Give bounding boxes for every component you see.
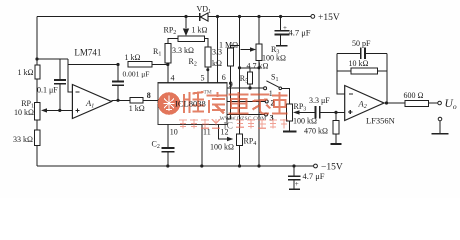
ground (top 4.7uF) xyxy=(276,45,288,47)
node -15V terminal xyxy=(314,163,343,173)
ground (bottom 4.7uF) xyxy=(289,188,300,190)
wire top bus xyxy=(37,16,311,18)
capacitor 0.001uF xyxy=(112,65,150,101)
resistor 33k xyxy=(13,130,40,146)
wire pin 6 riser xyxy=(216,15,226,83)
svg-text:100 kΩ: 100 kΩ xyxy=(293,117,317,126)
resistor R3 100k xyxy=(256,15,286,168)
capacitor 50pF feedback xyxy=(337,39,387,59)
resistor 1M xyxy=(219,41,240,120)
svg-text:3.3 μF: 3.3 μF xyxy=(309,96,330,105)
diode VD1 xyxy=(197,5,212,22)
watermark logo circle xyxy=(158,92,181,115)
ground output terminal xyxy=(432,117,449,134)
svg-text:8: 8 xyxy=(147,91,151,100)
wire 67.8 run (R3/R5 node) xyxy=(240,66,261,69)
svg-text:1 kΩ: 1 kΩ xyxy=(192,26,208,35)
resistor 10k feedback xyxy=(337,59,387,74)
resistor R1 3.3k xyxy=(153,43,194,63)
wire arrow to R3 xyxy=(241,47,257,51)
wire pin 4 riser xyxy=(166,63,174,83)
svg-text:4.7 μF: 4.7 μF xyxy=(303,171,325,181)
svg-text:1 kΩ: 1 kΩ xyxy=(125,53,141,62)
resistor 600 ohm xyxy=(404,91,438,107)
wire pin 11 to bus xyxy=(200,124,211,167)
node dot output/cap xyxy=(116,99,119,102)
node +15V terminal xyxy=(311,13,340,23)
op-amp A1 LM741 xyxy=(72,48,111,119)
svg-text:ICL8038: ICL8038 xyxy=(175,98,206,108)
capacitor 0.1uF xyxy=(37,59,66,110)
wire pin 5 riser xyxy=(201,67,210,83)
svg-text:470 kΩ: 470 kΩ xyxy=(304,127,328,136)
op-amp A2 LF356N xyxy=(345,86,395,126)
svg-text:10 kΩ: 10 kΩ xyxy=(349,59,369,68)
wire pin 3 run to terminal 3 xyxy=(227,113,274,123)
svg-text:4: 4 xyxy=(171,74,175,83)
svg-text:LF356N: LF356N xyxy=(366,116,395,126)
resistor 1k (output to pin 8) xyxy=(129,98,145,113)
wire A1 output xyxy=(112,99,158,101)
svg-text:4.7 kΩ: 4.7 kΩ xyxy=(247,61,269,70)
wire bottom bus xyxy=(37,165,314,167)
node dot A2 output xyxy=(384,101,405,104)
resistor 1k (left column) xyxy=(18,65,41,79)
svg-text:IC: IC xyxy=(224,121,234,131)
resistor 1k (feedback to pin4 node) xyxy=(125,53,168,67)
svg-text:600 Ω: 600 Ω xyxy=(404,91,424,100)
node Uo output terminal xyxy=(438,98,457,111)
wire from node y59 to inverting riser xyxy=(37,58,68,60)
op-amp U1 ICL8038 body xyxy=(158,83,227,125)
wire feedback right riser xyxy=(386,53,388,103)
svg-text:10 kΩ: 10 kΩ xyxy=(14,108,34,117)
svg-text:5: 5 xyxy=(201,74,205,83)
svg-text:kΩ: kΩ xyxy=(212,59,222,68)
svg-text:+: + xyxy=(295,180,299,188)
potentiometer RP3 100k xyxy=(287,102,317,126)
svg-text:TM: TM xyxy=(204,90,212,96)
svg-text:+15V: +15V xyxy=(318,13,340,23)
node junction at left rail y59 xyxy=(35,57,38,60)
capacitor 3.3uF xyxy=(308,96,336,119)
svg-text:+: + xyxy=(283,24,287,32)
svg-text:6: 6 xyxy=(222,73,226,82)
ground (RP3) xyxy=(283,121,297,132)
wire A1 feedback top run xyxy=(68,64,118,66)
svg-text:3.3 kΩ: 3.3 kΩ xyxy=(172,46,194,55)
capacitor 4.7uF (top) xyxy=(275,15,311,46)
capacitor C2 xyxy=(152,140,175,168)
svg-text:1 kΩ: 1 kΩ xyxy=(18,68,34,77)
svg-text:9: 9 xyxy=(229,80,233,89)
node dot at A2 +input xyxy=(334,111,344,114)
wire column A (+15 to -15 through RP4) xyxy=(238,15,241,168)
wire switch pole to RP3 xyxy=(282,88,290,104)
svg-text:1 kΩ: 1 kΩ xyxy=(129,104,145,113)
switch S1 xyxy=(266,73,281,90)
node dot at RP1 wiper / +input xyxy=(58,109,72,112)
resistor R2 3.3k xyxy=(189,47,223,68)
wire pin 10 to C2 xyxy=(168,124,178,147)
potentiometer RP2 1k xyxy=(164,15,208,47)
svg-text:50 pF: 50 pF xyxy=(352,39,371,48)
pin 12 label xyxy=(221,128,229,137)
potentiometer RP1 10k xyxy=(14,99,60,120)
wire pin 9 run to terminal 1 xyxy=(227,80,273,98)
node dot feedback xyxy=(116,63,119,66)
wire pin 12 to RP4 wiper xyxy=(210,124,234,151)
pin 8 label xyxy=(147,91,151,100)
watermark url text xyxy=(218,116,266,122)
wire inverting riser xyxy=(68,59,72,92)
svg-text:0.001 μF: 0.001 μF xyxy=(123,70,150,79)
svg-text:33 kΩ: 33 kΩ xyxy=(13,135,33,144)
ground (470k) xyxy=(330,143,341,145)
svg-text:4.7 μF: 4.7 μF xyxy=(289,28,311,38)
capacitor 4.7uF (bottom) xyxy=(288,164,325,189)
wire A2 -input to feedback riser xyxy=(337,53,345,94)
svg-text:100 kΩ: 100 kΩ xyxy=(210,142,234,151)
watermark big text xyxy=(184,90,288,114)
wire pin 2 run to terminal 2 xyxy=(227,98,275,107)
potentiometer RP4 100k xyxy=(237,134,257,147)
resistor R5 4.7k xyxy=(240,61,269,89)
svg-text:0.1 μF: 0.1 μF xyxy=(37,85,58,94)
chip label ICL8038 xyxy=(175,98,206,108)
svg-text:LM741: LM741 xyxy=(74,48,101,58)
wire left rail xyxy=(36,17,38,167)
svg-text:10: 10 xyxy=(170,128,178,137)
resistor 470k xyxy=(304,112,339,143)
watermark slogan text xyxy=(179,119,288,131)
